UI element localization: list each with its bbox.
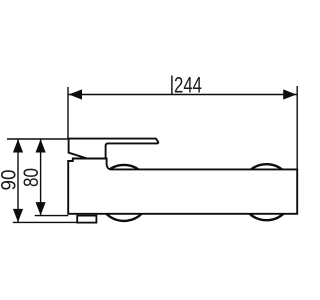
dimension line 90	[17, 139, 19, 222]
tick at 244 label	[171, 76, 173, 95]
svg-text:80: 80	[20, 168, 43, 187]
arrow down of 80	[36, 202, 46, 215]
mounting nut ellipse right	[240, 164, 293, 220]
spout outlet	[77, 216, 96, 223]
arrow up of 80	[36, 139, 46, 152]
extension line bottom 80	[35, 215, 69, 217]
lever handle with wedge base	[69, 139, 159, 159]
extension line bottom 90	[13, 221, 77, 223]
extension line right vertical (body right edge up)	[296, 86, 298, 169]
faucet body barrel	[68, 159, 297, 214]
extension line left vertical (to lever)	[67, 87, 69, 138]
mounting nut ellipse left	[98, 165, 151, 221]
arrow up of 90	[13, 139, 23, 152]
dimension line 244	[68, 94, 297, 96]
arrow down of 90	[13, 209, 23, 222]
extension line top horizontal (lever top)	[7, 138, 68, 140]
arrow left of 244	[69, 89, 82, 99]
svg-text:244: 244	[174, 73, 202, 98]
svg-text:90: 90	[0, 170, 21, 191]
dimension line 80	[40, 139, 42, 215]
arrow right of 244	[283, 89, 296, 99]
